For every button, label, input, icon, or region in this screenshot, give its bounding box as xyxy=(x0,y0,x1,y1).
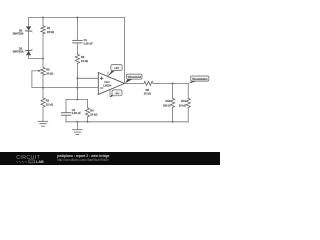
node top rail C1 tap xyxy=(76,17,78,19)
node box top junction xyxy=(76,99,78,101)
resistor R6 xyxy=(75,54,79,63)
power flag +9V xyxy=(108,65,122,77)
wire feedback vertical xyxy=(124,18,126,84)
svg-text:+9V: +9V xyxy=(114,66,119,70)
wire between zeners xyxy=(28,31,30,50)
capacitor C1 xyxy=(73,40,82,43)
wire C1-R6 xyxy=(76,43,78,54)
node R1/zener junction xyxy=(42,58,44,60)
op-amp OA2 xyxy=(98,73,124,95)
svg-text:LAB: LAB xyxy=(36,160,44,164)
diode D1 (zener) xyxy=(25,49,32,55)
circuitlab logo xyxy=(16,155,44,164)
wire to + input xyxy=(77,77,98,79)
power flag -9V xyxy=(110,90,122,98)
net flag Vthreshold xyxy=(125,74,142,83)
ground left xyxy=(38,121,48,126)
node pot/R2 junction xyxy=(42,87,44,89)
node R4 bottom xyxy=(87,121,89,123)
svg-text:jordiplano : report 2 : wein b: jordiplano : report 2 : wein bridge xyxy=(56,154,110,158)
capacitor C2 xyxy=(65,100,67,113)
node top rail R1 tap xyxy=(42,17,44,19)
resistor R10 xyxy=(172,83,174,98)
svg-text:-9V: -9V xyxy=(115,91,120,95)
resistor R1 xyxy=(42,18,44,27)
resistor R11 xyxy=(187,83,189,98)
ground center xyxy=(76,122,78,130)
node R10 bottom xyxy=(172,121,174,123)
wire wiper down xyxy=(31,71,33,88)
svg-text:http://circuitlab.com/c/5ae56u: http://circuitlab.com/c/5ae56uh95k8v xyxy=(57,158,109,162)
wire inverting input rail xyxy=(32,87,98,89)
node ground tap xyxy=(76,121,78,123)
resistor R2 xyxy=(42,88,44,98)
wire zener bottom jog xyxy=(29,55,43,58)
wire output xyxy=(125,82,144,84)
resistor R4 xyxy=(87,100,89,108)
footer text xyxy=(56,154,110,162)
diode D2 (zener) xyxy=(25,26,32,32)
wire bottom rail xyxy=(66,121,188,123)
node crossing blob xyxy=(76,87,78,89)
pot wiper arrow xyxy=(32,70,39,72)
wire C2/R4 box top xyxy=(66,99,88,101)
footer bar xyxy=(0,152,220,165)
svg-text:∿∿∿∿: ∿∿∿∿ xyxy=(16,160,28,164)
net flag Vmodulation xyxy=(189,76,209,84)
wire top rail xyxy=(29,17,125,19)
wire C1 top xyxy=(76,18,78,41)
node + input tap xyxy=(76,77,78,79)
node output R10 tap xyxy=(172,82,174,84)
potentiometer R3 xyxy=(41,67,45,75)
wire zener branch top xyxy=(28,18,30,27)
resistor R8 xyxy=(144,81,153,85)
